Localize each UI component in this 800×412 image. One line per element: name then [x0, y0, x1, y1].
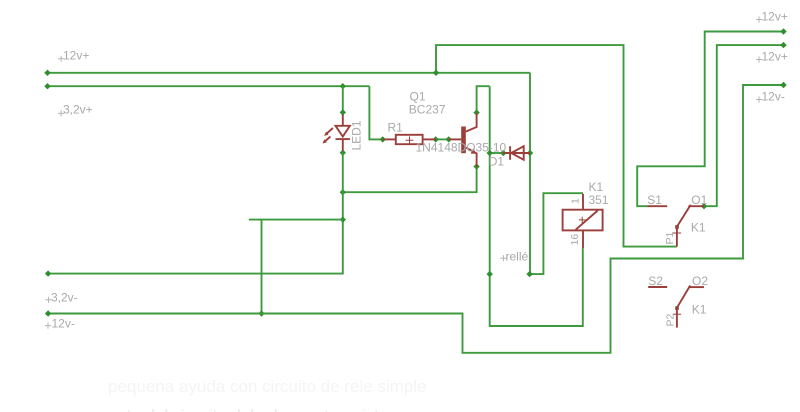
wire 12v+ top-left rail: [48, 72, 531, 74]
switch K1 arm 2: [677, 286, 690, 308]
svg-text:16: 16: [569, 234, 581, 246]
node 12v+ left pin dot: [44, 70, 50, 76]
switch P1 origin cross: [673, 232, 681, 234]
node R1 left pin junction: [380, 136, 386, 142]
svg-text:R1: R1: [388, 121, 404, 135]
wire emitter down and left to LED column: [343, 167, 477, 193]
switch K1 arm 1: [677, 205, 691, 227]
resistor R1 body: [396, 135, 423, 144]
resistor R1 left pin: [383, 138, 396, 140]
relay K1 origin cross: [579, 217, 586, 224]
svg-text:1: 1: [570, 198, 582, 204]
svg-text:K1: K1: [692, 303, 707, 317]
node D1 cathode-side dot on relay column: [527, 150, 533, 156]
node LED cathode pin dot: [340, 150, 346, 156]
wire collector top rail to P1 pivot: [436, 45, 677, 247]
switch contact O2 fixed pin: [688, 286, 704, 288]
svg-text:S2: S2: [648, 274, 663, 288]
svg-text:3,2v+: 3,2v+: [63, 102, 93, 116]
node junction LED column on 3,2v+ rail: [340, 83, 346, 89]
svg-text:D1: D1: [489, 154, 505, 168]
node 3,2v+ left pin dot: [44, 83, 50, 89]
wire elbow vertical down to 12v- rail: [261, 220, 263, 314]
node LED anode pin dot: [340, 109, 346, 115]
node relay feed dot right: [526, 271, 532, 277]
svg-text:P2: P2: [665, 313, 677, 326]
svg-text:12v-: 12v-: [52, 316, 75, 330]
node link left dot: [433, 136, 439, 142]
node emitter wire at LED column: [340, 189, 346, 195]
switch pivot P1: [675, 225, 679, 229]
switch P2 origin cross: [673, 313, 681, 315]
node collector junction dot: [473, 109, 479, 115]
wire 12v+ right second to O1 contact: [704, 45, 784, 206]
node link right dot: [446, 136, 452, 142]
node elbow on 12v- rail: [258, 310, 264, 316]
svg-text:351: 351: [589, 193, 609, 207]
node 12v+ right second pin dot: [780, 42, 786, 48]
node LED column and elbow junction: [340, 216, 346, 222]
wire elbow horizontal: [249, 219, 343, 221]
wire LED top pin from 3,2v+ rail: [342, 86, 344, 112]
LED LED1 cathode pin: [342, 139, 344, 151]
node 3,2v- left pin dot: [45, 270, 51, 276]
wire 3,2v+ rail: [48, 85, 370, 87]
svg-text:12v+: 12v+: [762, 9, 788, 23]
switch P1 pin: [676, 227, 678, 247]
svg-text:12v-: 12v-: [762, 89, 785, 103]
LED LED1 anode pin: [342, 115, 344, 126]
wire 12v+ rail corner down to relay column: [529, 73, 531, 274]
svg-text:BC237: BC237: [409, 103, 446, 117]
node emitter junction dot: [473, 163, 479, 169]
LED LED1 cathode bar: [336, 138, 350, 140]
diode D1 cathode bar: [509, 146, 511, 160]
diode D1 mid line: [503, 152, 530, 154]
LED LED1 triangle: [336, 126, 350, 137]
wire D1 left column down, across bottom, up to relay pin 16: [490, 86, 583, 326]
switch P2 pin: [676, 308, 678, 328]
svg-text:12v+: 12v+: [762, 49, 788, 63]
svg-text:LED1: LED1: [350, 120, 364, 150]
wire collector pi-link to D1 column: [477, 86, 490, 112]
svg-text:P1: P1: [664, 231, 676, 244]
svg-text:S1: S1: [647, 193, 662, 207]
wire 12v+ right top to S1 contact: [637, 32, 783, 207]
svg-text:O2: O2: [692, 274, 708, 288]
switch contact O1 fixed pin: [688, 205, 704, 207]
svg-text:K1: K1: [589, 180, 604, 194]
switch pivot P2: [675, 306, 679, 310]
node 12v+ right top pin dot: [780, 28, 786, 34]
node 12v- left pin dot: [45, 310, 51, 316]
node D1 anode-side dot: [500, 150, 506, 156]
switch contact S2 fixed pin: [648, 286, 667, 288]
svg-text:respuesta del circuito del rel: respuesta del circuito del rele con tran…: [66, 406, 444, 412]
LED LED1 emission arrow 1: [325, 128, 333, 135]
node D1 column junction: [487, 150, 493, 156]
wire 12v- rail long route to right side: [48, 85, 783, 353]
svg-text:rellé: rellé: [506, 250, 529, 264]
wire relay pin1 to 12v+ column: [530, 193, 583, 274]
svg-text:1N4148DO35-10: 1N4148DO35-10: [416, 141, 507, 155]
label relle origin cross: [500, 255, 506, 261]
svg-text:12v+: 12v+: [63, 49, 89, 63]
resistor R1 right pin: [423, 138, 436, 140]
relay K1 pin 16: [582, 230, 584, 248]
transistor Q1 emitter: [466, 147, 477, 166]
node 12v- right pin dot: [780, 82, 786, 88]
svg-text:pequena ayuda con circuito de: pequena ayuda con circuito de rele simpl…: [108, 377, 426, 396]
transistor Q1 emitter arrow: [471, 149, 477, 154]
svg-text:O1: O1: [691, 193, 707, 207]
diode D1 triangle: [511, 146, 524, 160]
node relay feed dot left: [487, 271, 493, 277]
relay K1 pin 1: [582, 194, 584, 210]
wire LED column down then left to 3,2v- pin: [48, 153, 343, 274]
transistor Q1 base bar: [461, 127, 466, 154]
transistor Q1 base pin: [449, 138, 462, 140]
svg-text:Q1: Q1: [410, 89, 426, 103]
transistor Q1 collector: [466, 113, 477, 132]
relay K1 coil diagonal: [576, 211, 598, 230]
relay K1 coil box: [563, 210, 603, 231]
wire base feed down from 3,2v+ rail to R1: [369, 86, 382, 139]
LED LED1 emission arrow 2: [324, 137, 331, 143]
svg-text:3,2v-: 3,2v-: [51, 290, 78, 304]
svg-text:K1: K1: [691, 221, 706, 235]
node O1 contact junction dot: [701, 203, 707, 209]
switch contact S1 fixed pin: [647, 205, 667, 207]
resistor R1 origin cross: [406, 136, 414, 144]
wire D1 left stub: [490, 152, 504, 154]
wire short link R1 to Q1 base: [436, 138, 449, 140]
node collector rail junction on 12v+ rail: [433, 70, 439, 76]
